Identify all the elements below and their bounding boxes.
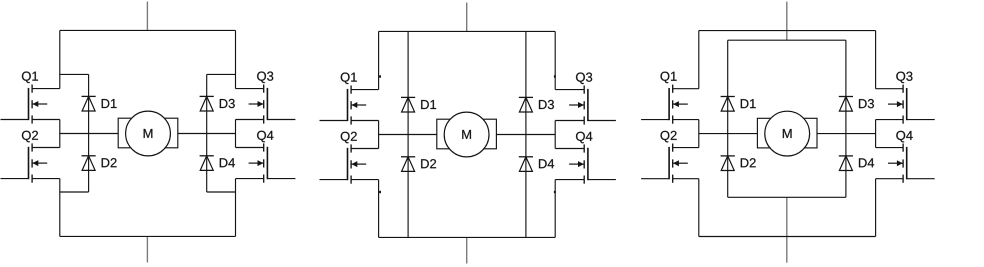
transistor Q1 (left circuit) xyxy=(1,85,60,124)
diode D4 (middle circuit) xyxy=(519,157,533,172)
wire: V- supply stub (middle circuit) xyxy=(466,237,468,263)
wire: bottom rail (middle circuit) xyxy=(379,236,556,238)
wire: D4 jumper (left circuit) xyxy=(207,191,236,193)
junction stub xyxy=(554,191,556,193)
diode D1 (middle circuit) xyxy=(401,97,415,112)
label D3 (right circuit) xyxy=(859,99,874,108)
wire: left source drop (right circuit) xyxy=(698,179,700,237)
wire: motor lead left (middle circuit) xyxy=(379,134,437,136)
diode D1 (right circuit) xyxy=(721,97,735,112)
wire: motor lead left (left circuit) xyxy=(60,133,118,135)
junction stub xyxy=(379,75,381,77)
label D2 (right circuit) xyxy=(741,158,756,167)
diode D2 (middle circuit) xyxy=(401,157,415,172)
transistor Q4 (right circuit) xyxy=(876,144,935,183)
label Q4 (left circuit) xyxy=(257,131,273,143)
wire: D3-D4 column (middle circuit) xyxy=(525,31,527,237)
wire: top rail (left circuit) xyxy=(60,29,236,31)
label D2 (middle circuit) xyxy=(421,159,436,168)
label D1 (left circuit) xyxy=(102,99,117,108)
diode D1 (left circuit) xyxy=(82,96,96,111)
wire: D1-D2 column (left circuit) xyxy=(88,74,90,192)
wire: D2 jumper (left circuit) xyxy=(60,191,89,193)
label D1 (middle circuit) xyxy=(421,100,436,109)
wire: right source drop (middle circuit) xyxy=(554,180,556,238)
wire: right drain riser (right circuit) xyxy=(875,31,877,89)
diode D3 (left circuit) xyxy=(200,96,214,111)
wire: diode-bridge inner top rail (right circuit) xyxy=(728,39,846,41)
transistor Q4 (left circuit) xyxy=(236,143,296,182)
label Q1 (left circuit) xyxy=(22,72,38,84)
diode D2 (right circuit) xyxy=(721,156,735,171)
wire: D3-D4 column (left circuit) xyxy=(206,74,208,192)
wire: right source drop (left circuit) xyxy=(235,179,237,237)
wire: D1-D2 column (right circuit) xyxy=(727,40,729,197)
label Q1 (middle circuit) xyxy=(341,73,357,85)
wire: right source drop (right circuit) xyxy=(875,179,877,237)
wire: right half-bridge node (middle circuit) xyxy=(554,121,556,149)
label D4 (right circuit) xyxy=(859,158,874,167)
transistor Q2 (right circuit) xyxy=(641,144,699,183)
wire: V- supply stub (right circuit) xyxy=(786,197,788,262)
transistor Q2 (left circuit) xyxy=(1,143,60,182)
transistor Q3 (right circuit) xyxy=(876,85,935,124)
wire: diode-bridge inner bottom rail (right circuit) xyxy=(728,196,846,198)
label Q2 (left circuit) xyxy=(22,131,38,143)
transistor Q1 (right circuit) xyxy=(641,85,699,124)
wire: left source drop (left circuit) xyxy=(59,179,61,237)
diode D3 (right circuit) xyxy=(839,97,853,112)
diode D3 (middle circuit) xyxy=(519,97,533,112)
wire: left half-bridge node (right circuit) xyxy=(698,120,700,148)
wire: V- supply stub (left circuit) xyxy=(146,236,148,262)
wire: V+ supply stub (middle circuit) xyxy=(466,3,468,32)
diode D4 (right circuit) xyxy=(839,156,853,171)
label D4 (middle circuit) xyxy=(539,159,554,168)
wire: left drain riser (right circuit) xyxy=(698,31,700,89)
diode D4 (left circuit) xyxy=(200,156,214,171)
wire: left drain riser (middle circuit) xyxy=(378,31,380,89)
motor M xyxy=(437,112,497,157)
wire: D3-D4 column (right circuit) xyxy=(845,40,847,197)
transistor Q3 (middle circuit) xyxy=(555,86,616,125)
wire: right half-bridge node (left circuit) xyxy=(235,120,237,148)
wire: bottom rail (left circuit) xyxy=(60,235,236,237)
wire: left half-bridge node (left circuit) xyxy=(59,120,61,148)
label Q3 (left circuit) xyxy=(257,72,273,84)
label Q1 (right circuit) xyxy=(661,72,677,84)
label D3 (left circuit) xyxy=(220,99,235,108)
junction stub xyxy=(379,191,381,193)
wire: D3 jumper (left circuit) xyxy=(207,73,236,75)
label Q4 (right circuit) xyxy=(896,131,912,143)
wire: V+ supply stub (left circuit) xyxy=(146,2,148,31)
wire: right drain riser (middle circuit) xyxy=(554,31,556,89)
wire: motor lead right (left circuit) xyxy=(178,133,236,135)
wire: motor lead right (right circuit) xyxy=(817,133,876,135)
label Q4 (middle circuit) xyxy=(576,132,592,144)
label D1 (right circuit) xyxy=(741,99,756,108)
label Q2 (right circuit) xyxy=(661,131,677,143)
wire: motor lead right (middle circuit) xyxy=(496,134,555,136)
wire: right drain riser (left circuit) xyxy=(235,30,237,88)
wire: motor lead left (right circuit) xyxy=(699,133,758,135)
motor M xyxy=(118,111,178,156)
label D4 (left circuit) xyxy=(220,158,235,167)
transistor Q4 (middle circuit) xyxy=(555,144,616,183)
transistor Q2 (middle circuit) xyxy=(320,144,379,183)
motor M xyxy=(757,111,817,156)
wire: D1 jumper (left circuit) xyxy=(60,73,89,75)
transistor Q1 (middle circuit) xyxy=(320,86,379,125)
wire: left source drop (middle circuit) xyxy=(378,180,380,238)
junction stub xyxy=(554,75,556,77)
wire: top rail (right circuit) xyxy=(699,30,876,32)
wire: bottom rail (right circuit) xyxy=(699,236,876,238)
label Q2 (middle circuit) xyxy=(341,132,357,144)
label Q3 (middle circuit) xyxy=(576,73,592,85)
wire: left drain riser (left circuit) xyxy=(59,30,61,88)
label D2 (left circuit) xyxy=(102,158,117,167)
diode D2 (left circuit) xyxy=(82,156,96,171)
label D3 (middle circuit) xyxy=(539,100,554,109)
wire: D1-D2 column (middle circuit) xyxy=(407,31,409,237)
wire: top rail (middle circuit) xyxy=(379,30,556,32)
label Q3 (right circuit) xyxy=(896,72,912,84)
wire: left half-bridge node (middle circuit) xyxy=(378,121,380,149)
transistor Q3 (left circuit) xyxy=(236,85,296,124)
wire: V+ supply stub (right circuit) xyxy=(786,2,788,41)
wire: right half-bridge node (right circuit) xyxy=(875,120,877,148)
